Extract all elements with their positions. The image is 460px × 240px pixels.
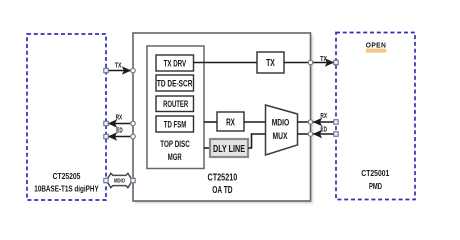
port square ED on PMD [334, 132, 338, 136]
block TOP DISC MGR (inner box) [147, 46, 204, 169]
wire TX left (digiPHY to OA TD) [106, 61, 131, 75]
svg-text:RX: RX [226, 117, 235, 128]
svg-text:TX: TX [320, 54, 327, 63]
bus connector MDIO [106, 173, 132, 187]
svg-text:ROUTER: ROUTER [163, 98, 188, 109]
block CT25210 OA TD (middle box) [133, 33, 313, 203]
svg-text:TD FSM: TD FSM [164, 118, 187, 129]
svg-text:PMD: PMD [369, 181, 382, 191]
port square RX on PMD [334, 120, 338, 124]
svg-text:CT25001: CT25001 [361, 168, 389, 178]
port circle ED on OA TD right [308, 132, 313, 137]
port square MDIO on digiPHY [104, 178, 108, 182]
block RX [217, 112, 244, 131]
svg-text:10BASE-T1S digiPHY: 10BASE-T1S digiPHY [34, 184, 99, 194]
svg-text:CT25205: CT25205 [53, 171, 81, 181]
port square TX on PMD [334, 60, 338, 64]
block TX DRV [156, 55, 194, 71]
arrowhead ED right (PMD to OA TD) [313, 130, 323, 138]
port square TX on digiPHY [104, 68, 108, 72]
port square MDIO on OA TD [131, 178, 135, 182]
block CT25001 PMD (right dashed box) [336, 33, 415, 200]
svg-text:TX: TX [266, 58, 275, 69]
wire RX block to MDIO MUX [244, 121, 266, 123]
port circle RX on OA TD left [131, 121, 136, 126]
svg-text:CT25210: CT25210 [208, 173, 238, 184]
svg-text:DLY LINE: DLY LINE [213, 144, 245, 155]
wire ED left (OA TD to digiPHY) [108, 125, 133, 140]
svg-text:TX: TX [115, 61, 122, 70]
wire TX block to right edge [284, 62, 311, 64]
port square ED on digiPHY [104, 134, 108, 138]
block TX [257, 52, 284, 73]
wire inner box to RX block [204, 121, 217, 123]
svg-text:MDIO: MDIO [272, 117, 290, 128]
svg-text:ED: ED [116, 125, 122, 134]
block TD FSM [156, 116, 194, 132]
svg-text:OA TD: OA TD [212, 185, 232, 196]
mux MDIO MUX [266, 105, 298, 155]
svg-text:ED: ED [321, 125, 327, 134]
port circle TX on OA TD left [131, 68, 136, 73]
svg-text:RX: RX [116, 112, 123, 121]
arrowhead RX right (PMD to OA TD) [313, 118, 323, 126]
wire inner box to DLY LINE [204, 147, 210, 149]
port circle TX on OA TD right [308, 60, 313, 65]
svg-text:TX DRV: TX DRV [164, 57, 187, 68]
port circle ED on OA TD left [131, 134, 136, 139]
wire RX left (OA TD to digiPHY) [108, 112, 133, 127]
svg-text:OPEN: OPEN [366, 41, 387, 50]
port square RX on digiPHY [104, 121, 108, 125]
wire TX DRV to TX block [194, 62, 258, 64]
svg-text:TD DE-SCR: TD DE-SCR [157, 77, 193, 88]
wire MUX to right box RX [298, 121, 337, 123]
block CT25205 10BASE-T1S digiPHY (left dashed box) [27, 34, 106, 200]
wire TX right (OA TD to PMD) [311, 54, 335, 66]
block DLY LINE [210, 139, 248, 157]
block ROUTER [156, 96, 194, 112]
svg-text:MGR: MGR [168, 151, 182, 162]
svg-text:MUX: MUX [273, 130, 289, 141]
svg-text:MDIO: MDIO [114, 178, 125, 184]
wire MUX to right box ED [298, 133, 337, 135]
block TD DE-SCR [156, 75, 194, 91]
svg-text:TOP DISC: TOP DISC [160, 138, 190, 149]
OPEN Alliance logo [366, 41, 387, 53]
wire DLY LINE to MDIO MUX [248, 134, 266, 148]
port circle RX on OA TD right [308, 120, 313, 125]
